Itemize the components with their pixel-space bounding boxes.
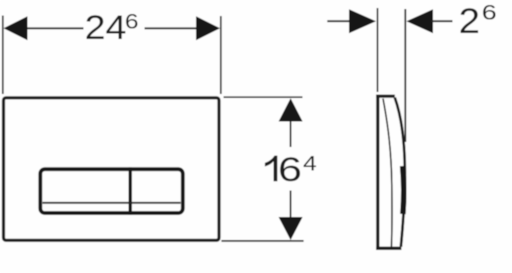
extension line bottom (height dim) (221, 240, 303, 242)
extension line left (width dim) (2, 16, 4, 95)
button divider (128, 167, 131, 215)
side view top edge (376, 95, 395, 98)
side view inner contour (383, 99, 392, 248)
svg-text:24: 24 (85, 7, 127, 46)
svg-text:2: 2 (459, 1, 480, 40)
width dimension line right segment (145, 27, 215, 29)
svg-text:6: 6 (482, 1, 497, 25)
svg-text:6: 6 (125, 9, 139, 33)
height arrow up (279, 98, 303, 121)
width arrow right (196, 16, 220, 40)
svg-text:4: 4 (303, 151, 317, 175)
extension line right (width dim) (220, 16, 222, 94)
side view front face curve (395, 98, 405, 247)
extension line left (depth dim) (377, 8, 379, 92)
side view bottom edge (376, 247, 401, 250)
width dimension line left segment (10, 27, 84, 29)
side view button bump (403, 166, 404, 214)
svg-text:6: 6 (278, 151, 302, 189)
extension line top (height dim) (224, 96, 303, 98)
side view back edge (376, 95, 379, 250)
depth arrow pointing left (406, 9, 433, 33)
extension line right (depth dim) (404, 9, 406, 142)
height arrow down (279, 217, 303, 240)
plate outline (front view) (4, 98, 220, 241)
width arrow left (4, 16, 28, 40)
button split line (43, 202, 181, 204)
height dimension line top segment (290, 121, 292, 148)
height label digit 1 (265, 156, 277, 182)
button frame (40, 169, 183, 213)
depth dimension tail left (327, 20, 352, 22)
depth dimension tail right (432, 20, 453, 22)
height dimension line bottom segment (290, 191, 292, 219)
depth arrow pointing right (349, 9, 376, 33)
